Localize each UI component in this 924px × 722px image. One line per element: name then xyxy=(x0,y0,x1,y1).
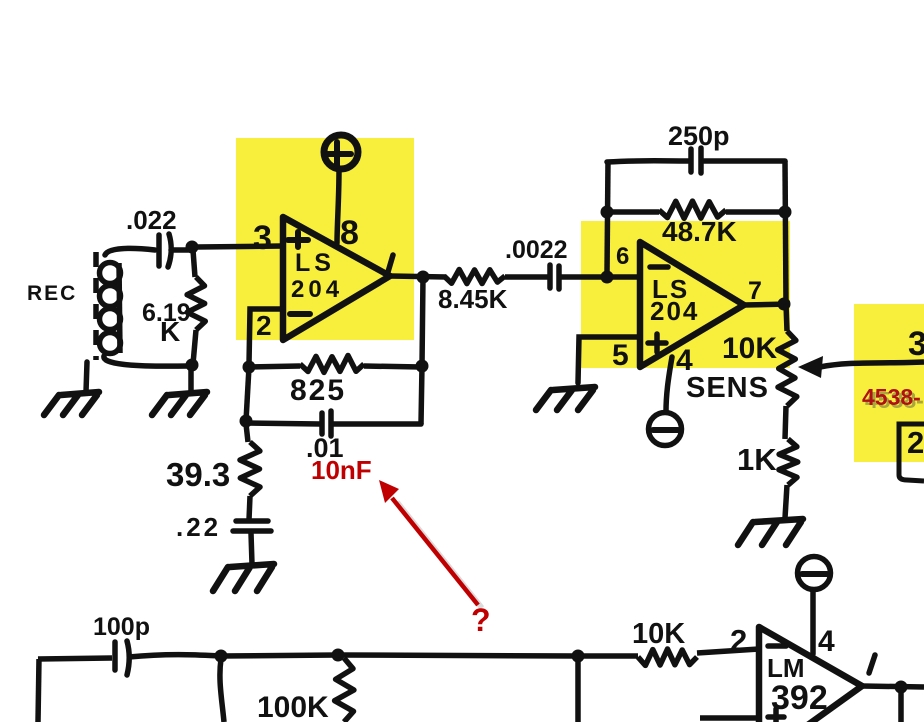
resistor R6 825 xyxy=(249,366,300,367)
wire U4 output drop xyxy=(898,690,904,722)
svg-text:39.3: 39.3 xyxy=(166,456,230,493)
wire U4 output xyxy=(862,686,924,687)
wire left vertical down xyxy=(246,367,249,421)
svg-text:5: 5 xyxy=(612,339,629,372)
svg-text:10K: 10K xyxy=(722,332,777,365)
svg-text:48.7K: 48.7K xyxy=(662,216,737,247)
power -V at U4 pin4 xyxy=(798,557,831,655)
op-amp U1 LS204 xyxy=(253,214,393,341)
wire rail C6 to node F xyxy=(129,655,338,657)
svg-text:SENS: SENS xyxy=(686,372,769,404)
svg-text:7: 7 xyxy=(748,277,762,305)
svg-text:6: 6 xyxy=(616,243,629,270)
wire rail F to G xyxy=(338,655,578,656)
wiper arrow xyxy=(820,362,924,367)
capacitor C3 250p xyxy=(607,148,785,173)
svg-text:250p: 250p xyxy=(668,121,730,151)
svg-text:100p: 100p xyxy=(93,613,150,641)
svg-text:10nF: 10nF xyxy=(311,455,372,485)
capacitor C2 .0022 xyxy=(550,265,603,289)
ground at U2 pin5 xyxy=(536,387,595,410)
node E xyxy=(215,650,228,663)
highlight box over U2 xyxy=(581,221,790,368)
svg-text:.022: .022 xyxy=(126,205,177,235)
svg-text:.22: .22 xyxy=(176,512,221,542)
IC U3 pin 2 box xyxy=(899,424,924,481)
svg-text:2: 2 xyxy=(730,623,747,658)
resistor R7 39.3 xyxy=(246,424,248,442)
svg-text:100K: 100K xyxy=(257,691,329,722)
wire ground stub left xyxy=(86,362,87,392)
inductor L1 REC coil xyxy=(100,248,189,366)
ground under R5 xyxy=(738,519,803,545)
resistor R2 8.45K xyxy=(444,270,505,284)
node U1 output xyxy=(417,271,430,284)
node G xyxy=(572,650,585,663)
wire left drop xyxy=(38,659,39,722)
svg-text:4538-: 4538- xyxy=(862,384,921,410)
node U2 output xyxy=(778,298,791,311)
capacitor C4 .01 xyxy=(246,411,421,436)
power +V at U1 pin 8 xyxy=(324,135,358,243)
svg-text:?: ? xyxy=(471,602,491,638)
capacitor C1 .022 xyxy=(159,234,188,267)
node U2 pin6 junction xyxy=(601,271,614,284)
ground under C5 xyxy=(213,564,274,591)
ground left xyxy=(44,392,99,415)
wire bottom rail left xyxy=(38,658,112,659)
svg-text:3: 3 xyxy=(253,219,272,257)
svg-text:1K: 1K xyxy=(737,442,777,477)
node C1/R1/U1 junction xyxy=(186,241,199,254)
wire U2 output xyxy=(744,304,790,305)
wire junction to U1 pin 3 xyxy=(197,246,283,247)
svg-text:2: 2 xyxy=(256,310,272,341)
wire right vertical to U1 output node xyxy=(421,277,423,424)
potentiometer R4 10K xyxy=(786,304,787,331)
svg-text:K: K xyxy=(160,316,180,347)
resistor R8 100K xyxy=(335,658,354,722)
wire feedback right vertical xyxy=(785,161,786,303)
node R1 bottom junction xyxy=(186,359,199,372)
svg-text:825: 825 xyxy=(290,374,346,407)
ground under R1 xyxy=(152,392,207,415)
highlight box over U3 4538 xyxy=(854,304,924,462)
wire node E drop xyxy=(220,659,224,722)
node F xyxy=(332,649,345,662)
node C4 left xyxy=(240,415,253,428)
op-amp U4 LM392 xyxy=(730,623,875,722)
node 825 left xyxy=(243,361,256,374)
resistor R3 48.7K xyxy=(607,209,659,215)
svg-text:2: 2 xyxy=(907,425,924,460)
wire U1 pin2 feedback xyxy=(249,309,283,364)
capacitor C5 .22 xyxy=(233,521,271,564)
svg-text:10K: 10K xyxy=(632,618,685,650)
op-amp U2 LS204 xyxy=(612,242,762,377)
svg-text:LS: LS xyxy=(295,249,335,277)
wire U1 output xyxy=(390,276,446,277)
svg-text:204: 204 xyxy=(650,296,699,326)
wire U4 pin3 lead xyxy=(700,715,759,721)
wire U2 pin5 to ground xyxy=(578,337,640,383)
wire node G drop xyxy=(575,659,581,722)
highlight box over U1 xyxy=(236,138,414,340)
svg-text:392: 392 xyxy=(771,679,828,717)
svg-text:.0022: .0022 xyxy=(505,236,568,264)
node feedback left xyxy=(601,206,614,219)
annotation arrow red xyxy=(379,480,482,608)
power -V at U2 pin4 xyxy=(649,357,682,446)
svg-text:REC: REC xyxy=(27,282,77,305)
node 825 right xyxy=(416,360,429,373)
svg-text:4: 4 xyxy=(818,625,835,658)
svg-text:204: 204 xyxy=(291,276,343,303)
resistor R9 10K xyxy=(578,653,638,659)
wire feedback left vertical xyxy=(607,161,608,273)
svg-text:8: 8 xyxy=(340,214,359,252)
svg-text:8.45K: 8.45K xyxy=(438,284,508,314)
svg-text:3: 3 xyxy=(908,325,924,363)
node feedback right xyxy=(779,206,792,219)
wire pot to R5 xyxy=(785,406,786,439)
resistor R1 6.19K xyxy=(187,277,205,330)
resistor R5 1K xyxy=(779,439,798,485)
capacitor C6 100p xyxy=(115,641,129,675)
dashed core line xyxy=(93,252,99,360)
node U4 output xyxy=(895,681,908,694)
